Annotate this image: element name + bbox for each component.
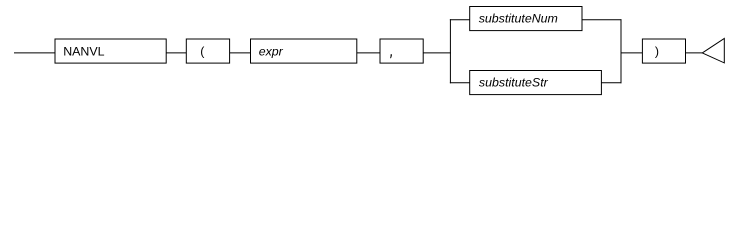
svg-text:): ) <box>655 45 659 59</box>
svg-text:substituteNum: substituteNum <box>479 12 558 26</box>
terminal arrow triangle <box>702 38 724 63</box>
wire top branch left <box>450 19 470 21</box>
wire ) to terminal <box>686 52 703 54</box>
wire entry <box>14 52 56 54</box>
wire bottom branch right <box>601 82 621 84</box>
variable box expr <box>251 39 357 63</box>
wire ( to expr <box>230 52 251 54</box>
wire expr to comma <box>357 52 380 54</box>
variable box substituteStr <box>470 71 602 95</box>
svg-text:substituteStr: substituteStr <box>479 76 549 90</box>
branch split vertical <box>449 19 451 83</box>
punctuation box ) <box>642 39 685 63</box>
punctuation box ( <box>186 39 229 63</box>
wire NANVL to ( <box>166 52 186 54</box>
variable box substituteNum <box>470 7 582 31</box>
svg-text:expr: expr <box>259 45 284 59</box>
svg-text:NANVL: NANVL <box>63 45 104 59</box>
branch merge vertical <box>620 19 622 83</box>
wire comma to branch split <box>423 52 451 54</box>
wire bottom branch left <box>450 82 470 84</box>
punctuation box comma <box>380 39 423 63</box>
label comma <box>390 54 391 58</box>
wire top branch right <box>582 19 622 21</box>
keyword box NANVL <box>55 39 166 63</box>
wire merge to ) <box>621 52 643 54</box>
